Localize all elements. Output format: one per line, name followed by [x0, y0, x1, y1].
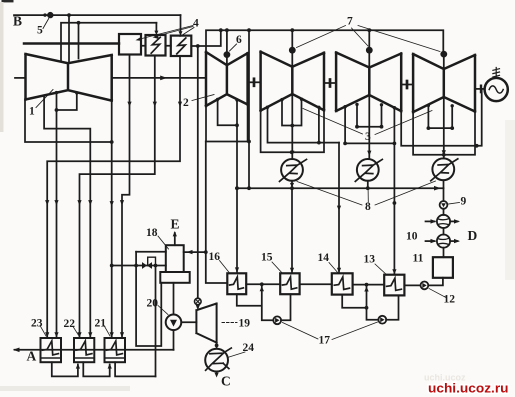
- wire cascade 22 to 21: [83, 362, 109, 376]
- wire box13 to pump 12: [404, 284, 420, 286]
- wire drop to box 4b with arrow: [155, 23, 157, 32]
- wire drop to turbine T1 waist: [68, 15, 70, 62]
- wire extraction from box 4a down to heater 21: [122, 55, 130, 338]
- wire box links: [141, 30, 221, 46]
- svg-text:10: 10: [406, 231, 418, 243]
- wire condensate line 14-13: [353, 284, 385, 286]
- label 2: [192, 95, 214, 101]
- wire T3a inner drain U: [282, 99, 302, 125]
- wire LP steam header: [206, 30, 443, 52]
- wire outlet C: [216, 372, 218, 375]
- label 1: [36, 90, 53, 108]
- wire shaft link T3b-T3c: [401, 84, 413, 86]
- wire T3c inner drain U: [428, 105, 452, 128]
- heater 22: [74, 338, 94, 362]
- svg-text:14: 14: [318, 252, 330, 264]
- pump 12: [421, 282, 429, 290]
- label 24: [228, 352, 246, 358]
- wire T3c outer drain U: [413, 112, 475, 155]
- pump 20: [166, 315, 182, 331]
- deaerator 18 tank: [160, 272, 189, 283]
- wire T3a exhaust to condenser C1: [291, 94, 293, 159]
- wire shaft link T3c-generator: [475, 88, 485, 90]
- wire left port of T1: [15, 77, 26, 79]
- svg-text:20: 20: [147, 298, 159, 310]
- node dot after box 4c: [196, 44, 200, 48]
- generator G: [485, 78, 508, 101]
- valve 7c: [443, 58, 445, 70]
- label 15: [272, 262, 282, 273]
- box 11: [433, 257, 453, 278]
- valve 5: [47, 12, 53, 18]
- svg-text:8: 8: [365, 201, 371, 213]
- wire T3b corner drain to generator side: [401, 89, 482, 146]
- wire T3a middle drain U to box 14: [268, 107, 340, 142]
- svg-text:A: A: [27, 349, 37, 364]
- node junction on line B: [67, 13, 71, 17]
- ejector 10b: [437, 235, 450, 248]
- label 20: [158, 306, 168, 315]
- wire T3c exhaust to condenser C3: [443, 97, 445, 158]
- node junction 16-15: [260, 282, 264, 286]
- wire drop to box 4c with arrow: [180, 15, 182, 32]
- wire pump 17a to box15: [281, 294, 290, 320]
- wire C2 outlet: [367, 181, 369, 188]
- pump 9: [440, 201, 448, 209]
- label 17: [283, 322, 378, 340]
- wire heater drain riser: [155, 266, 157, 377]
- wire pump 20 to A line: [173, 330, 175, 350]
- label 16: [220, 261, 230, 273]
- heater 21: [105, 338, 126, 362]
- wire 10a-10b: [443, 228, 445, 235]
- wire T2 inner drain U to box 16: [218, 99, 237, 271]
- wire pump 17b to box13: [386, 295, 398, 319]
- box 4b heater: [146, 35, 166, 56]
- svg-text:D: D: [468, 228, 478, 243]
- label 12: [429, 289, 446, 298]
- svg-text:6: 6: [236, 34, 242, 46]
- wire drop into turbine top: [78, 23, 80, 59]
- label 8: [297, 181, 436, 205]
- valve 6: [226, 30, 228, 65]
- condenser 24: [205, 349, 228, 372]
- wire T3b inner drain U: [357, 104, 382, 126]
- svg-text:E: E: [171, 217, 180, 232]
- ejector 10a: [437, 215, 450, 228]
- wire shaft link T2-T3a: [248, 81, 261, 83]
- motor valve of turbine 19: [195, 298, 202, 305]
- svg-text:5: 5: [37, 25, 43, 37]
- label 3: [303, 109, 432, 135]
- wire box16 drain loop: [237, 284, 273, 320]
- node drain taps on turbine bottom edges: [55, 91, 454, 110]
- svg-text:11: 11: [413, 253, 424, 265]
- node junction 14-13: [365, 283, 369, 287]
- wire shaft link T3a-T3b: [324, 82, 336, 84]
- wire pump 12 to box 11: [428, 278, 443, 286]
- wire condensate line 16-15: [246, 283, 280, 285]
- svg-text:15: 15: [261, 252, 273, 264]
- svg-text:16: 16: [209, 251, 221, 263]
- svg-text:uchi.ucoz.ru: uchi.ucoz.ru: [428, 381, 509, 395]
- wire extraction from box 4b down to heater 22: [80, 56, 155, 338]
- turbine T3b: [336, 53, 401, 112]
- valve 7a: [291, 30, 293, 67]
- wire T1 drain left corner to heater 21: [25, 100, 112, 338]
- svg-text:19: 19: [239, 318, 251, 330]
- wire shaft link T1-T2: [112, 77, 206, 79]
- wire condensate header: [236, 187, 444, 189]
- svg-text:13: 13: [364, 254, 376, 266]
- wire box14 drain loop: [342, 285, 378, 320]
- label 13: [375, 264, 386, 274]
- wire T2 outer drain U: [206, 105, 249, 142]
- label 7: [297, 26, 441, 52]
- box 14 heater: [332, 273, 353, 294]
- label 23: [40, 326, 46, 337]
- svg-text:4: 4: [193, 18, 199, 30]
- wire turbine 19 to condenser 24: [216, 343, 218, 349]
- node flange dot: [43, 13, 46, 16]
- box 15 heater: [280, 273, 299, 294]
- wire extraction from box 4c down to heater 23: [47, 56, 180, 337]
- wire tank to pump 20: [173, 283, 175, 315]
- wire deaerator right inlet: [184, 251, 206, 253]
- wire T3a outer drain U: [261, 110, 324, 152]
- wire bypass drop from header to drain: [248, 30, 250, 188]
- svg-text:12: 12: [444, 294, 456, 306]
- label 18: [158, 236, 169, 249]
- svg-text:7: 7: [347, 16, 353, 28]
- wire turbine 19 steam line: [197, 46, 199, 298]
- pump 17a: [273, 316, 281, 324]
- box 13 heater: [384, 275, 404, 296]
- label 14: [329, 263, 338, 273]
- wire T3a drain drop to box 14: [338, 143, 340, 273]
- box 16 heater: [227, 273, 246, 294]
- wire T3b drain to box 13: [393, 143, 395, 274]
- wire condensate line 15-14: [300, 283, 332, 285]
- valve 7b: [368, 30, 370, 67]
- condenser C3: [432, 158, 454, 180]
- svg-text:18: 18: [146, 227, 158, 239]
- scan edge artifacts: [2, 0, 14, 2]
- wire T3b exhaust to condenser C2: [368, 95, 370, 159]
- label 6: [230, 44, 237, 51]
- wire 10b to box 11: [443, 248, 445, 258]
- wire cascade 21 to riser: [115, 362, 155, 376]
- wire C1 outlet to box 15: [291, 181, 293, 273]
- svg-text:2: 2: [183, 97, 189, 109]
- box 4a: [119, 34, 141, 55]
- wire vent E: [174, 233, 176, 245]
- svg-text:24: 24: [243, 342, 255, 354]
- wire T3b outer drain U: [345, 107, 394, 144]
- wire tank drain line: [136, 252, 161, 346]
- wire T1 waist drain U to heater 23: [57, 93, 77, 337]
- wire main steam line B: [14, 14, 181, 16]
- wire upper deaerator inlet: [136, 251, 166, 253]
- turbine T3c: [413, 54, 475, 112]
- svg-text:B: B: [13, 14, 22, 29]
- wire C3 outlet to pump 9: [443, 180, 445, 201]
- label 9: [449, 203, 460, 205]
- svg-text:21: 21: [95, 318, 107, 330]
- heater 23: [41, 338, 62, 362]
- turbine 19: [196, 304, 216, 343]
- label 19: [222, 322, 237, 324]
- deaerator 18 column: [166, 245, 184, 272]
- wire deaerator feed valve line: [112, 265, 166, 267]
- svg-text:23: 23: [31, 318, 43, 330]
- wire cascade 23 to 22: [52, 362, 78, 376]
- wire pump 20 to turbine 19: [181, 321, 196, 323]
- turbine U1 HP double-flow: [24, 44, 119, 101]
- wire valve bypass loop: [148, 257, 156, 265]
- condenser C2: [357, 159, 379, 181]
- wire feedwater A line: [15, 349, 174, 351]
- label 21: [104, 326, 110, 337]
- condenser C1: [281, 159, 303, 181]
- svg-text:9: 9: [461, 196, 467, 208]
- svg-text:1: 1: [29, 106, 35, 118]
- turbine T2: [206, 52, 248, 106]
- svg-text:C: C: [221, 374, 231, 389]
- valve feed: [142, 262, 147, 269]
- svg-text:17: 17: [319, 335, 331, 347]
- wire steam line 2: [61, 23, 156, 62]
- label 22: [73, 327, 79, 337]
- label 4: [138, 26, 194, 40]
- box 4c heater: [171, 36, 192, 56]
- label 5: [43, 19, 49, 29]
- node junction on line 2: [77, 21, 81, 25]
- wire T1 drain slant to heater 22: [44, 96, 90, 337]
- turbine T3a: [261, 52, 324, 111]
- svg-text:22: 22: [64, 318, 76, 330]
- pump 17b: [378, 316, 386, 324]
- wire drain drop to deaerator and box 16: [206, 142, 228, 284]
